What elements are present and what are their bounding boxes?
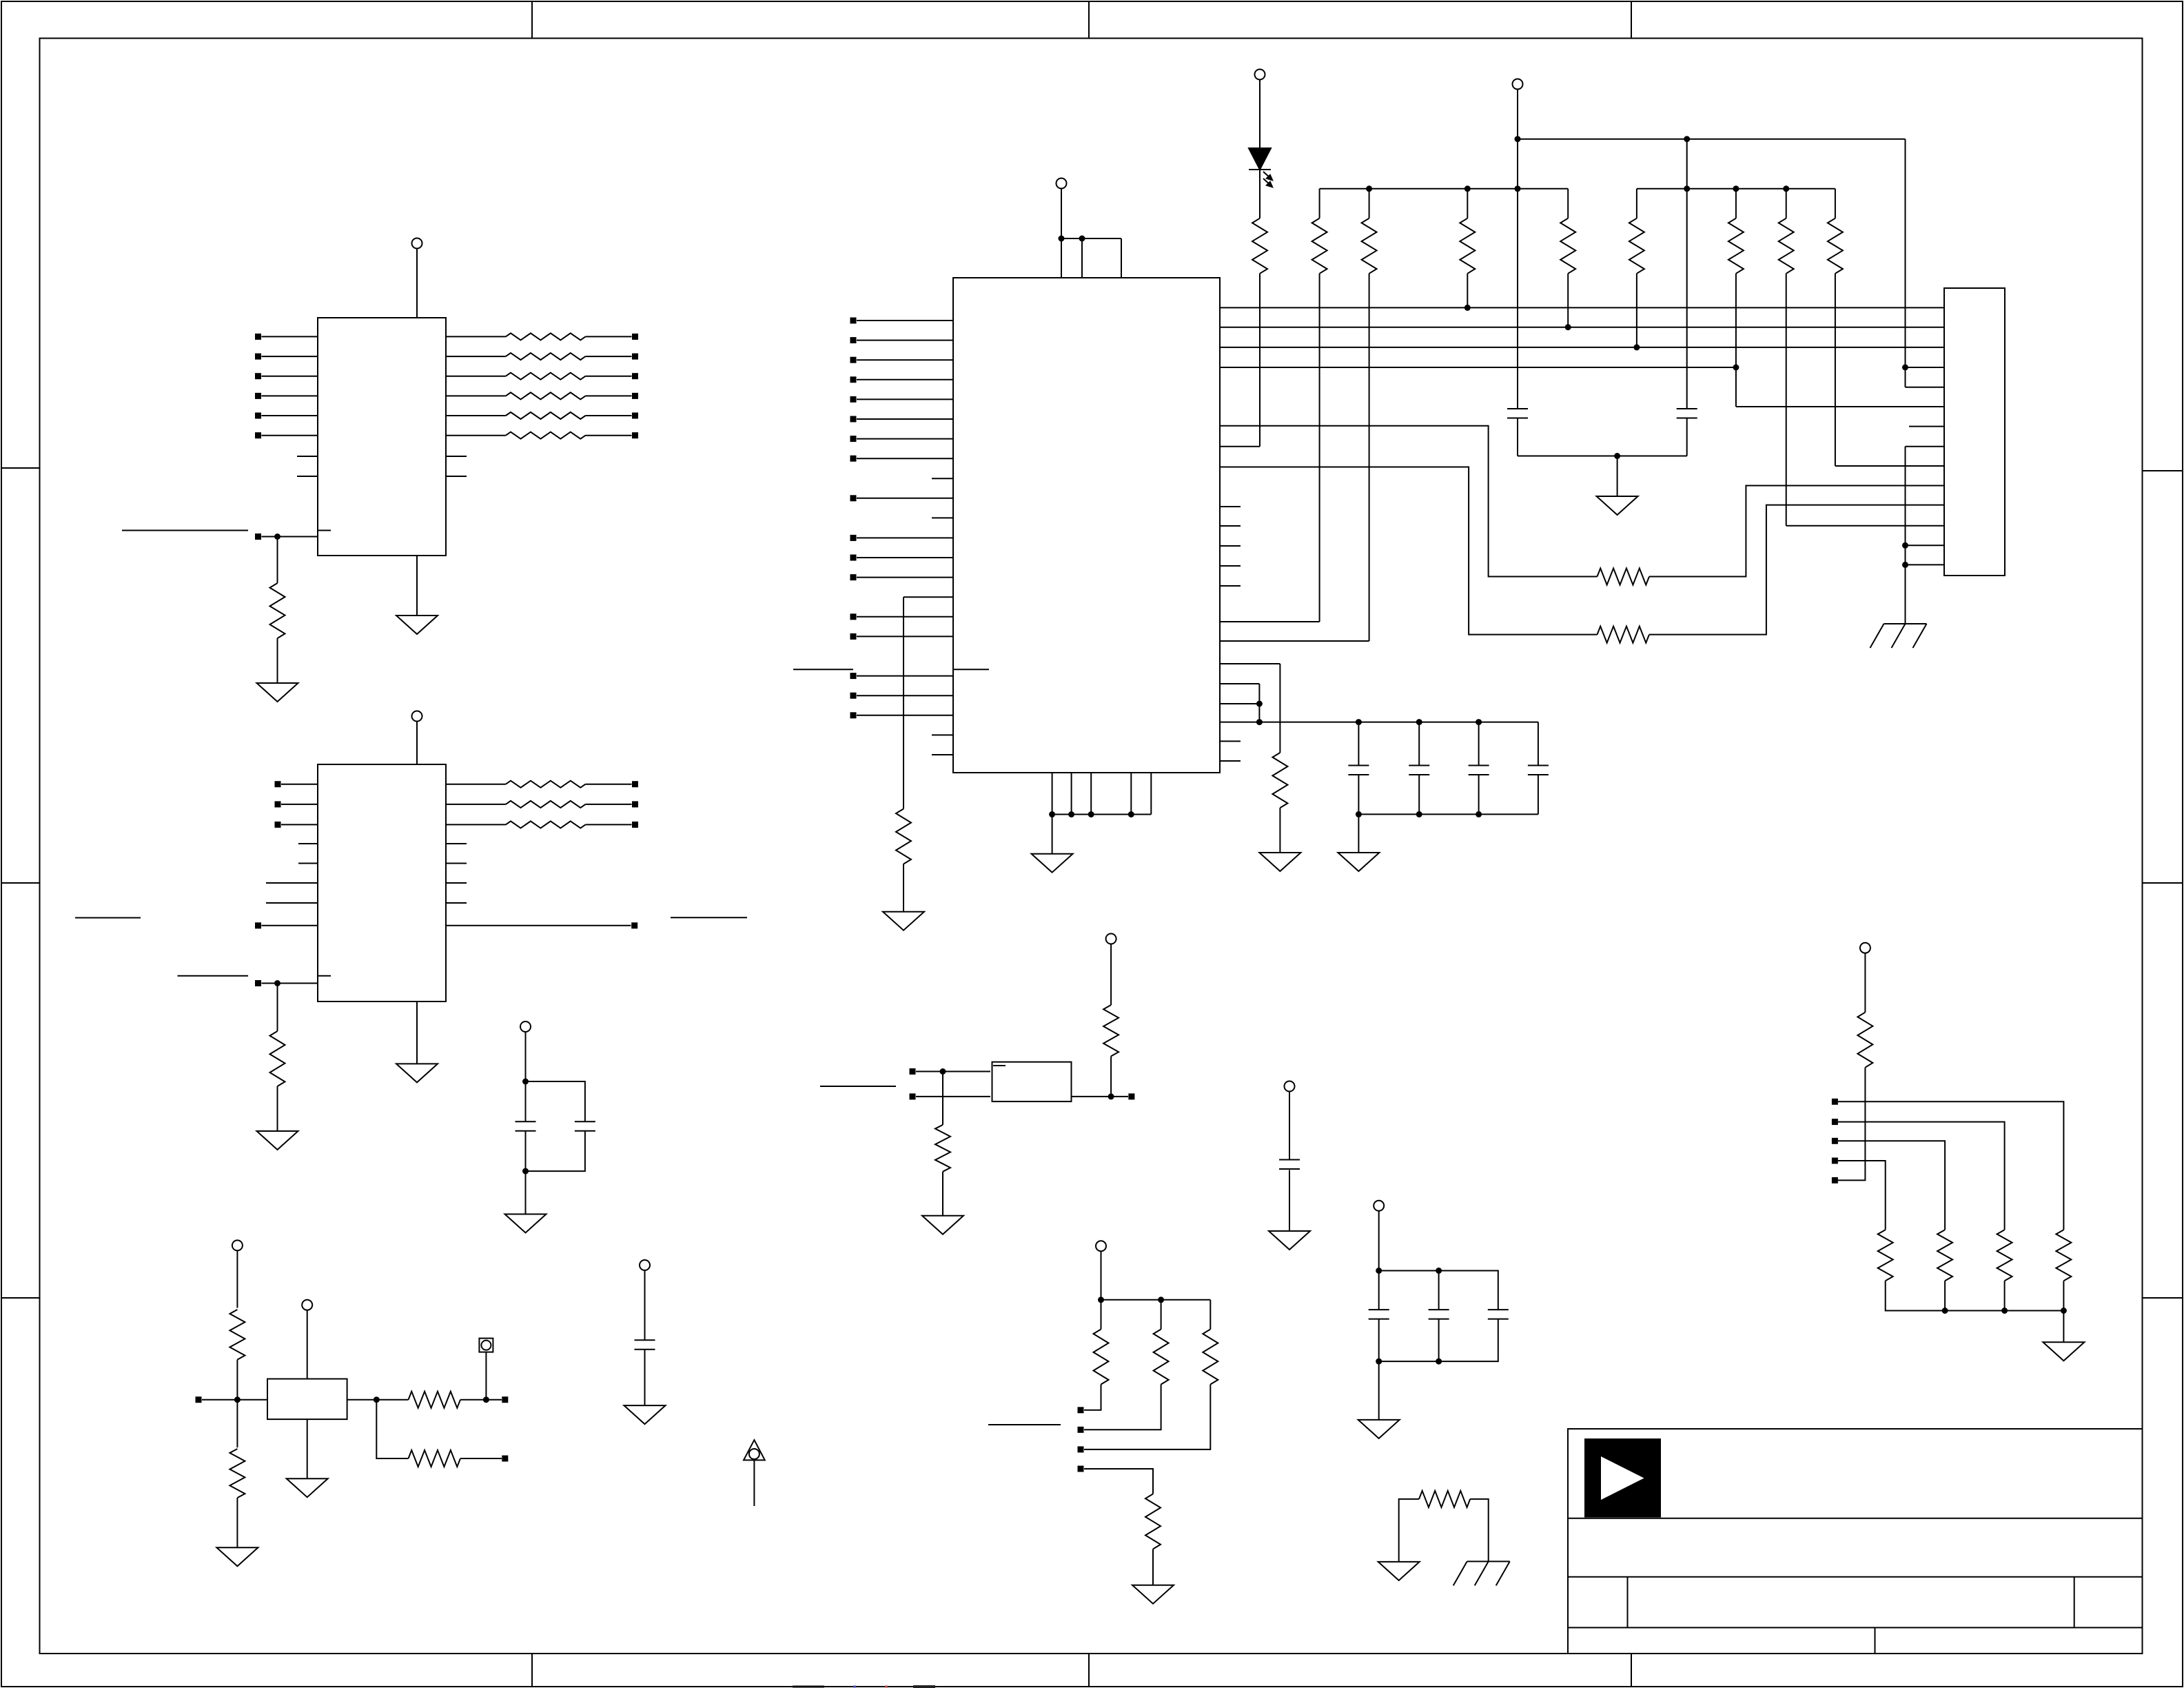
- wire J1 pin8 chassis net: [1906, 446, 1945, 447]
- wire U2 left pin 7: [857, 438, 953, 440]
- border zone tick left 2: [1, 882, 40, 884]
- resistor trio top rail: [1101, 1299, 1211, 1301]
- terminal square R33: [502, 1396, 508, 1403]
- ground under R30: [1132, 1585, 1174, 1604]
- J1 stub pin7: [1909, 426, 1944, 427]
- wire U1 left pin 4: [262, 395, 318, 396]
- U1 right pin 2 terminal square: [632, 354, 638, 360]
- U3 left stub pin d: [266, 902, 318, 904]
- junction dot node H: [374, 1396, 380, 1403]
- wire node G down: [236, 1400, 238, 1447]
- pull-up rail bank2: [1637, 188, 1835, 190]
- resistor R12: [896, 809, 911, 864]
- wire C7 to ground: [644, 1350, 646, 1405]
- U4 right terminal square: [1128, 1093, 1134, 1099]
- U2 inner pin stub: [953, 669, 989, 670]
- resistor R19 pull-up: [1735, 189, 1737, 218]
- junction dot t1: [1098, 1296, 1104, 1303]
- junction dot node B: [274, 980, 280, 986]
- wire R18 down to bus: [1636, 274, 1637, 347]
- capacitor C5: [1469, 765, 1489, 766]
- U3 right stub pin d: [446, 902, 467, 904]
- ground under R32: [216, 1547, 258, 1566]
- wire bus via R-a to J1 pin10: [1220, 426, 1598, 577]
- wire J1s to R36: [1838, 1101, 2063, 1230]
- wire R27 to terminal: [1084, 1385, 1101, 1410]
- junction dot node D: [1108, 1093, 1114, 1099]
- wire P2 to U3: [416, 722, 418, 765]
- ground under capacitor bank: [1338, 853, 1379, 871]
- junction dot node E: [522, 1079, 529, 1085]
- wire U2 left pin 3: [857, 359, 953, 360]
- capacitor C11: [1369, 1309, 1389, 1310]
- chassis net vertical: [1905, 447, 1906, 624]
- net label line block F: [988, 1424, 1061, 1425]
- border zone tick bottom 3: [1631, 1654, 1632, 1687]
- wire U1 right pin 3: [446, 376, 506, 377]
- wire R37 to rail: [2004, 1281, 2006, 1310]
- U3 left stub pin b: [298, 863, 318, 864]
- U3 right stub pin b: [446, 863, 467, 864]
- wire U2 left pin 15: [857, 675, 953, 677]
- capacitor C3: [1348, 765, 1369, 766]
- wire P13 to U5: [307, 1310, 308, 1379]
- U2 left pin 12 terminal square: [850, 574, 857, 580]
- wire C11 top lead: [1378, 1271, 1380, 1310]
- border zone tick bottom 2: [1088, 1654, 1090, 1687]
- power flag P11: [1096, 1241, 1106, 1251]
- wire P5 down to cap: [1517, 90, 1518, 409]
- junction dot b2: [1464, 185, 1471, 192]
- capacitor C1: [1507, 408, 1528, 409]
- resistor R13 LED series: [1252, 218, 1267, 274]
- junction dot J1 pin13: [1902, 542, 1908, 549]
- logo black square: [1585, 1439, 1660, 1517]
- U3 right stub pin c: [446, 882, 467, 884]
- wire P3 down: [1061, 189, 1062, 239]
- capacitor C9: [575, 1121, 595, 1122]
- U1 right stub pin b: [446, 476, 467, 477]
- U2 left pin 4 terminal square: [850, 376, 857, 383]
- wire U2 left pin 10: [857, 537, 953, 538]
- terminal square J1s: [1832, 1099, 1838, 1105]
- wire U2 left pin 11: [857, 557, 953, 558]
- border zone tick right 2: [2143, 882, 2183, 884]
- title block outline: [1568, 1429, 2143, 1654]
- junction dot node G: [234, 1396, 241, 1403]
- resistor R6 on U1 pin: [506, 432, 586, 439]
- wire down to R12: [903, 597, 904, 809]
- wire square to U3: [262, 983, 318, 984]
- capacitor C10: [1279, 1159, 1300, 1161]
- wire U2 left pin 8: [857, 458, 953, 459]
- resistor R31: [229, 1310, 245, 1360]
- wire node H down: [376, 1400, 408, 1458]
- wire U1 right pin 4: [446, 395, 506, 396]
- wire rail to U2 pin a: [1061, 238, 1062, 278]
- capacitor C4: [1409, 765, 1429, 766]
- capacitor C6: [1528, 765, 1549, 766]
- U3 pin terminal square bottom-left: [255, 980, 261, 986]
- wire U2 left pin 2: [857, 340, 953, 341]
- wire node B down: [277, 984, 278, 1032]
- reference symbol triangle: [744, 1440, 765, 1460]
- logo white triangle: [1601, 1456, 1644, 1500]
- wire P7 to C7: [644, 1270, 646, 1340]
- wire R25 to ground: [942, 1172, 943, 1216]
- resistor R15 pull-up: [1369, 189, 1370, 218]
- wire U3 left pin 2: [281, 804, 318, 805]
- wire U2 left pin 17: [857, 715, 953, 716]
- wire cap C6 bottom lead: [1538, 775, 1539, 814]
- power flag P3 above U2: [1057, 179, 1067, 189]
- ground under R25: [922, 1216, 963, 1234]
- U3 inner pin stub: [318, 975, 331, 977]
- power flag P9: [1285, 1081, 1295, 1092]
- ground under C7: [624, 1405, 666, 1424]
- wire cap rail to ground: [1358, 814, 1359, 853]
- U2 right stub pin 7: [1220, 760, 1241, 762]
- junction dot on bus XD0: [1464, 305, 1471, 311]
- LED light arrow 2: [1263, 179, 1271, 185]
- wire R34 to terminal: [460, 1458, 502, 1459]
- terminal square J3s: [1832, 1138, 1838, 1144]
- wire bus XD3: [1220, 367, 1736, 368]
- junction dot cap rail 2: [1416, 719, 1422, 725]
- wire U2 pin fold b: [1220, 703, 1259, 704]
- pull-up rail bank1: [1320, 188, 1569, 190]
- net label line U3 bottom-left: [178, 975, 249, 977]
- wire capacitor rail top: [1220, 722, 1538, 723]
- U2 left pin 11 terminal square: [850, 555, 857, 561]
- junction dot b4: [1684, 185, 1690, 192]
- U3 right pin 3 terminal square: [632, 822, 638, 828]
- capacitor C13: [1488, 1309, 1509, 1310]
- resistor R20 pull-up: [1786, 189, 1787, 218]
- wire J1 pin14: [1906, 564, 1945, 565]
- ground under U1: [396, 616, 438, 634]
- ground under R7: [257, 683, 298, 702]
- junction dot b1: [1366, 185, 1372, 192]
- resistor R23 series: [1598, 627, 1650, 643]
- junction dot on rail: [1059, 236, 1065, 242]
- chassis ground under J1: [1884, 623, 1927, 624]
- resistor R33 series: [409, 1392, 461, 1408]
- border zone tick right 1: [2143, 470, 2183, 471]
- U2 top power rail: [1061, 238, 1121, 239]
- terminal square J4s: [1832, 1158, 1838, 1164]
- junction dot f1: [1256, 701, 1263, 707]
- wire bus XD1: [1220, 327, 1944, 328]
- wire C12 top lead: [1438, 1271, 1440, 1310]
- terminal square J2s: [1832, 1119, 1838, 1125]
- U2 left pin 5 terminal square: [850, 396, 857, 403]
- capacitor C8: [516, 1121, 536, 1122]
- wire bus via R-b to J1 pin11: [1220, 467, 1598, 635]
- wire J4s to R39: [1838, 1161, 1886, 1230]
- border zone tick left 3: [1, 1297, 40, 1299]
- wire P8 down: [525, 1032, 527, 1081]
- U3 left stub pin a: [298, 843, 318, 844]
- power flag P7: [640, 1260, 650, 1270]
- U2 left stub pin 4: [932, 754, 953, 755]
- wire node D up: [1110, 1056, 1112, 1097]
- resistor R14 pull-up: [1319, 189, 1320, 218]
- resistor R29: [1210, 1300, 1211, 1330]
- junction dot cap rail 1: [1356, 719, 1362, 725]
- resistor R40: [1419, 1491, 1470, 1507]
- wire node A down: [277, 537, 278, 584]
- junction dot g3: [1088, 811, 1094, 817]
- junction dot J1 pin14: [1902, 562, 1908, 568]
- U2 left pin 16 terminal square: [850, 693, 857, 699]
- wire U2 pin to R24: [1220, 663, 1280, 664]
- U2 left stub pin 2: [932, 517, 953, 518]
- wire R28 to terminal: [1084, 1385, 1161, 1430]
- resistor R2 on U1 pin: [506, 353, 586, 360]
- border zone tick top 1: [531, 1, 533, 39]
- wire U3 right pin 1: [446, 784, 506, 785]
- junction dot h1: [1376, 1268, 1382, 1274]
- wire U2 bottom pin 4: [1130, 773, 1132, 815]
- junction dot h2: [1436, 1268, 1442, 1274]
- wire U3 right pin 3: [446, 824, 506, 825]
- junction dot g2: [1068, 811, 1074, 817]
- border zone tick bottom 1: [531, 1654, 533, 1687]
- net label line left of U4: [820, 1086, 896, 1087]
- resistor R25 to ground: [935, 1125, 950, 1172]
- wire C11 bottom lead: [1378, 1319, 1380, 1362]
- U2 left pin 15 terminal square: [850, 673, 857, 679]
- wire P11 down: [1101, 1251, 1102, 1300]
- wire R33 to terminal: [460, 1399, 502, 1401]
- resistor R32 to ground: [229, 1449, 245, 1498]
- wire R12 to ground: [903, 864, 904, 912]
- net label line right of U3: [671, 917, 747, 918]
- U1 left pin 5 terminal square: [255, 413, 261, 419]
- resistor R17 pull-up: [1567, 189, 1569, 218]
- U2 left pin 6 terminal square: [850, 416, 857, 423]
- wire U2 left pin 16: [857, 695, 953, 696]
- resistor R7 to ground: [270, 583, 285, 638]
- net label line U1 bottom-left: [122, 530, 248, 531]
- wire cap C6 top lead: [1538, 722, 1539, 766]
- U1 left pin 3 terminal square: [255, 373, 261, 379]
- wire to J1 pin4: [1906, 367, 1945, 368]
- U2 left pin 9 terminal square: [850, 495, 857, 501]
- wire top rail down to J1: [1905, 139, 1906, 387]
- junction dot on bus XD2: [1633, 344, 1640, 350]
- title block column divider row3 left: [1627, 1577, 1629, 1628]
- U2 bottom ground rail: [1052, 814, 1152, 815]
- wire U1 right pin 1: [446, 336, 506, 337]
- wire P12 to R31: [236, 1250, 238, 1308]
- terminal square left: [196, 1396, 202, 1403]
- power flag P10: [1374, 1201, 1384, 1211]
- U2 left stub pin 1: [932, 478, 953, 479]
- junction dot f2: [1256, 719, 1263, 725]
- junction dot on bus XD1: [1565, 324, 1571, 330]
- junction dot g1: [1049, 811, 1055, 817]
- wire R19 down to J1 pin6: [1735, 274, 1737, 407]
- U2 right stub pin 6: [1220, 740, 1241, 742]
- border zone tick right 3: [2143, 1297, 2183, 1299]
- U3 right pin 1 terminal square: [632, 781, 638, 787]
- wire U1 right pin 2: [446, 356, 506, 357]
- wire U2 bottom pin 3: [1090, 773, 1092, 815]
- wire C12 bottom lead: [1438, 1319, 1440, 1362]
- wire U1 ground pin: [416, 556, 418, 616]
- wire R11 to ground: [277, 1086, 278, 1131]
- junction dot on bus XD3: [1733, 365, 1739, 371]
- U3 right pin 2 terminal square: [632, 801, 638, 807]
- wire terminal to U5: [202, 1399, 267, 1401]
- wire R21 down to J1 pin9: [1835, 274, 1836, 466]
- wire R5 to terminal: [586, 415, 632, 416]
- wire P1 to U1: [416, 249, 418, 318]
- power flag P6: [1106, 934, 1116, 944]
- wire U2 left pin 9: [857, 498, 953, 499]
- wire R16 down to bus: [1467, 274, 1468, 308]
- U1 left pin 6 terminal square: [255, 432, 261, 438]
- U2 left pin 14 terminal square: [850, 633, 857, 640]
- wire U2 left pin 6: [857, 418, 953, 420]
- wire R40 to chassis: [1470, 1499, 1489, 1562]
- wire U5 output: [347, 1399, 409, 1401]
- U2 right stub pin 2: [1220, 525, 1241, 527]
- connector J1: [1944, 288, 2005, 576]
- wire R31 to node G: [236, 1360, 238, 1400]
- junction dot t2: [1158, 1296, 1164, 1303]
- title block row divider 3: [1568, 1627, 2143, 1628]
- wire rail to ground: [1052, 815, 1053, 854]
- ground under U3: [396, 1064, 438, 1082]
- ground under block J: [2043, 1342, 2084, 1361]
- IC U1: [318, 318, 446, 556]
- junction dot b3: [1515, 185, 1521, 192]
- wire C10 to ground: [1289, 1170, 1290, 1232]
- ground under cap trio: [1358, 1420, 1400, 1438]
- wire R17 down to bus: [1567, 274, 1569, 327]
- wire R3 to terminal: [586, 376, 632, 377]
- wire R1 to terminal: [586, 336, 632, 337]
- wire rail to U2 pin b: [1081, 238, 1083, 278]
- junction dot J1 pin4: [1902, 365, 1908, 371]
- wire U3 left pin 1: [281, 784, 318, 785]
- terminal square R28: [1078, 1427, 1084, 1433]
- ground under R24: [1259, 853, 1300, 871]
- wire ground to R40: [1399, 1499, 1419, 1562]
- wire terminal to R30: [1084, 1469, 1153, 1494]
- junction dot on rail 2: [1079, 236, 1085, 242]
- junction dot node F: [522, 1168, 529, 1175]
- U2 left stub pin 3: [932, 734, 953, 735]
- resistor R37: [1997, 1230, 2012, 1281]
- wire U4 left pin 1: [916, 1071, 990, 1072]
- junction dot cb3: [1476, 811, 1482, 817]
- wire U2 pin fold a: [1220, 683, 1259, 684]
- U1 right stub pin a: [446, 456, 467, 457]
- wire U2 left pin 1: [857, 320, 953, 321]
- wire R10 to terminal: [586, 824, 632, 825]
- wire R26 to power: [1110, 944, 1112, 1006]
- capacitor C2: [1677, 408, 1697, 409]
- wire U1 left pin 2: [262, 356, 318, 357]
- junction dot cap rail 3: [1476, 719, 1482, 725]
- wire rail1 to rail2 link: [1686, 139, 1688, 409]
- junction dot j2: [2001, 1308, 2008, 1314]
- chassis ground right of R40: [1467, 1560, 1510, 1562]
- resistor R27: [1101, 1300, 1102, 1330]
- U2 left pin 7 terminal square: [850, 436, 857, 442]
- ground under caps: [1597, 496, 1638, 515]
- U1 inner pin stub: [318, 530, 331, 531]
- resistor R5 on U1 pin: [506, 412, 586, 419]
- power flag P8: [520, 1021, 531, 1032]
- wire R15 down to U2 pin: [1369, 274, 1370, 641]
- wire cap pair top loop: [526, 1081, 585, 1121]
- wire R9 to terminal: [586, 804, 632, 805]
- wire cap C3 top lead: [1358, 722, 1359, 766]
- wire cap C5 bottom lead: [1478, 775, 1480, 814]
- wire U1 left pin 5: [262, 415, 318, 416]
- junction dot g4: [1128, 811, 1134, 817]
- wire U2 left pin 12: [857, 577, 953, 578]
- U1 right pin 6 terminal square: [632, 432, 638, 438]
- wire square to U1: [262, 536, 318, 538]
- terminal square R34: [502, 1456, 508, 1462]
- block J bottom rail: [1886, 1281, 2064, 1310]
- wire R23 to J1 pin11: [1649, 505, 1944, 635]
- wire R35 to terminal sq5: [1838, 1068, 1865, 1181]
- title block column divider row4: [1875, 1627, 1876, 1654]
- wire cap C3 bottom lead: [1358, 775, 1359, 814]
- wire U3 right pin 2: [446, 804, 506, 805]
- power flag P13: [302, 1300, 312, 1310]
- wire bus XD2: [1220, 347, 1944, 348]
- resistor R10 on U3 pin: [506, 821, 586, 828]
- resistor R18 pull-up: [1636, 189, 1637, 218]
- wire R24 to ground: [1279, 808, 1280, 853]
- ground under U2: [1032, 854, 1073, 873]
- resistor R35 pull-up: [1857, 1013, 1872, 1068]
- wire U2 pin to LED chain: [1220, 446, 1260, 447]
- resistor R21 pull-up: [1835, 189, 1836, 218]
- wire R22 to J1 pin10: [1649, 486, 1944, 577]
- resistor R22 series: [1598, 569, 1650, 585]
- wire cap trio to ground: [1378, 1361, 1380, 1420]
- wire J3s to R38: [1838, 1141, 1945, 1230]
- wire U1 left pin 6: [262, 435, 318, 436]
- wire R38 to rail: [1944, 1281, 1946, 1310]
- wire P9 to C10: [1289, 1092, 1290, 1160]
- test point TP1: [479, 1339, 493, 1352]
- junction dot j3: [2061, 1308, 2067, 1314]
- ground left of R40: [1378, 1562, 1420, 1580]
- resistor R38: [1937, 1230, 1952, 1281]
- U2 left pin 3 terminal square: [850, 357, 857, 363]
- wire cap C4 top lead: [1418, 722, 1420, 766]
- wire U3 left pin 3: [281, 824, 318, 825]
- U2 right stub pin 4: [1220, 565, 1241, 567]
- U1 left stub pin b: [297, 476, 318, 477]
- resistor R16 pull-up: [1467, 189, 1468, 218]
- wire P4 to LED: [1259, 80, 1261, 149]
- resistor R11 to ground: [270, 1031, 285, 1086]
- ground under cap pair: [505, 1214, 547, 1233]
- terminal square J5: [1832, 1177, 1838, 1183]
- wire to J1 pin5: [1906, 387, 1945, 388]
